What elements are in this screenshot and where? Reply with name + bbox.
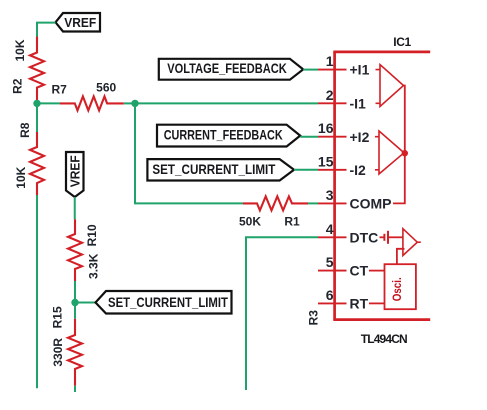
svg-text:-I1: -I1 bbox=[350, 95, 367, 111]
svg-text:COMP: COMP bbox=[350, 196, 392, 212]
wire VOLTAGE_FEEDBACK to pin 1 bbox=[303, 69, 318, 71]
wire R7 to node B bbox=[124, 102, 134, 104]
wire CURRENT_FEEDBACK to pin 16 bbox=[300, 136, 318, 138]
wire oscillator to comparator input bbox=[397, 249, 405, 264]
resistor R1 bbox=[243, 196, 308, 210]
net flag CURRENT_FEEDBACK bbox=[157, 125, 300, 147]
svg-text:R2: R2 bbox=[10, 78, 24, 94]
svg-text:560: 560 bbox=[96, 81, 116, 95]
wire node C to SET_CURRENT_LIMIT flag bbox=[75, 302, 96, 304]
resistor R2 bbox=[30, 37, 44, 104]
net flag VOLTAGE_FEEDBACK bbox=[159, 59, 303, 80]
wire R10 to node C bbox=[74, 281, 76, 303]
svg-text:SET_CURRENT_LIMIT: SET_CURRENT_LIMIT bbox=[108, 294, 228, 310]
wire VREF to R2 top bbox=[37, 23, 56, 37]
wire node B to pin 2 bbox=[135, 102, 318, 104]
junction node (op-amp outputs) bbox=[402, 150, 408, 156]
svg-text:6: 6 bbox=[326, 287, 334, 303]
IC1 outline (TL494CN) bbox=[333, 52, 430, 320]
svg-text:CT: CT bbox=[350, 263, 369, 279]
svg-text:R3: R3 bbox=[306, 310, 320, 326]
svg-text:4: 4 bbox=[326, 221, 334, 237]
resistor R10 bbox=[68, 219, 82, 281]
svg-text:330R: 330R bbox=[51, 338, 65, 367]
wire pin 4 to bottom edge bbox=[246, 237, 318, 390]
svg-text:10K: 10K bbox=[13, 39, 27, 61]
wire RT to oscillator bbox=[369, 302, 385, 304]
svg-text:DTC: DTC bbox=[350, 229, 379, 245]
svg-text:TL494CN: TL494CN bbox=[361, 332, 408, 346]
svg-text:10K: 10K bbox=[14, 166, 28, 188]
net flag VREF (top-left) bbox=[56, 13, 101, 32]
svg-text:16: 16 bbox=[318, 120, 334, 136]
svg-text:VREF: VREF bbox=[68, 155, 82, 187]
svg-text:-I2: -I2 bbox=[350, 162, 367, 178]
svg-text:R10: R10 bbox=[85, 224, 99, 246]
wire VREF2 to R10 bbox=[74, 197, 76, 219]
wire node B down to COMP row bbox=[135, 103, 243, 203]
svg-text:2: 2 bbox=[326, 87, 334, 103]
resistor R8 bbox=[30, 132, 44, 195]
pin 5 stub bbox=[318, 270, 347, 272]
pin 4 stub bbox=[318, 236, 347, 238]
wire R15 to bottom edge bbox=[74, 386, 76, 392]
junction node A bbox=[33, 100, 40, 107]
pin 1 stub bbox=[318, 69, 347, 71]
svg-text:R1: R1 bbox=[284, 214, 300, 228]
svg-text:3.3K: 3.3K bbox=[86, 253, 100, 279]
pin 2 stub bbox=[318, 102, 347, 104]
op-amp U1a (error amp 1) bbox=[376, 65, 404, 107]
wire R8 down to bottom edge bbox=[36, 195, 38, 388]
svg-text:1: 1 bbox=[326, 53, 334, 69]
pin 3 stub bbox=[318, 202, 347, 204]
net flag SET_CURRENT_LIMIT (lower) bbox=[96, 291, 232, 314]
wire node A down to R8 bbox=[36, 103, 38, 132]
svg-text:IC1: IC1 bbox=[393, 35, 411, 49]
pin 6 stub bbox=[318, 302, 347, 304]
svg-text:R15: R15 bbox=[50, 306, 64, 328]
pin 15 stub bbox=[318, 169, 347, 171]
svg-text:5: 5 bbox=[326, 254, 334, 270]
svg-text:+I1: +I1 bbox=[350, 62, 370, 78]
svg-text:SET_CURRENT_LIMIT: SET_CURRENT_LIMIT bbox=[152, 161, 275, 177]
pin 16 stub bbox=[318, 136, 347, 138]
resistor R7 bbox=[60, 96, 124, 110]
svg-text:Osci.: Osci. bbox=[390, 277, 404, 301]
svg-text:R8: R8 bbox=[18, 122, 32, 138]
svg-text:VOLTAGE_FEEDBACK: VOLTAGE_FEEDBACK bbox=[167, 60, 287, 76]
svg-text:15: 15 bbox=[318, 153, 334, 169]
wire op-amp1 output down to op-amp2 output and COMP bbox=[393, 86, 405, 204]
junction node C bbox=[71, 299, 78, 306]
junction node B bbox=[131, 100, 138, 107]
wire node C down to R15 bbox=[74, 303, 76, 319]
svg-text:CURRENT_FEEDBACK: CURRENT_FEEDBACK bbox=[164, 127, 283, 143]
oscillator box bbox=[385, 264, 416, 309]
battery offset symbol at DTC bbox=[380, 231, 403, 244]
wire R1 to pin 3 bbox=[308, 202, 318, 204]
svg-text:R7: R7 bbox=[52, 82, 68, 96]
net flag VREF (vertical, middle-left) bbox=[66, 152, 84, 197]
svg-text:+I2: +I2 bbox=[350, 129, 370, 145]
wire SET_CURRENT_LIMIT to pin 15 bbox=[294, 169, 318, 171]
svg-text:VREF: VREF bbox=[64, 16, 96, 30]
wire CT to oscillator bbox=[369, 270, 385, 272]
op-amp U1b (error amp 2) bbox=[375, 131, 404, 174]
svg-text:3: 3 bbox=[326, 187, 334, 203]
comparator U1c (dead-time) bbox=[403, 229, 421, 256]
wire node A to R7 bbox=[37, 102, 60, 104]
resistor R15 bbox=[68, 319, 82, 386]
svg-text:RT: RT bbox=[350, 296, 369, 312]
net flag SET_CURRENT_LIMIT (upper) bbox=[147, 159, 294, 180]
svg-text:50K: 50K bbox=[239, 214, 261, 228]
